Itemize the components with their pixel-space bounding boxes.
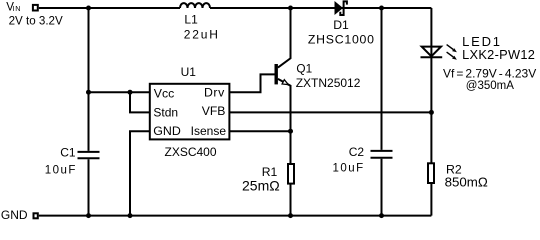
op-amp U1 body (ZXSC400 controller box) (150, 84, 230, 140)
transistor Q1 base bar (275, 64, 278, 84)
terminal GND (34, 213, 38, 218)
LED1 light arrow 2 head (452, 56, 457, 60)
wire: GND pin down to ground rail (130, 131, 149, 215)
node: R1 / ground junction (288, 213, 293, 218)
diode LED1 triangle (422, 47, 441, 57)
svg-text:Vcc: Vcc (154, 87, 175, 101)
wire: VIN terminal to L1 (top rail left) (39, 7, 180, 9)
capacitor C1 (78, 152, 100, 158)
svg-text:ZXTN25012: ZXTN25012 (296, 76, 361, 90)
inductor L1 (180, 3, 210, 8)
svg-text:10uF: 10uF (333, 163, 365, 175)
wire: ground rail (39, 215, 432, 217)
LED1 light arrow 1 head (452, 48, 457, 52)
node: D1 cathode / C2 junction (379, 6, 384, 11)
wire: VFB pin to LED cathode / R2 node (229, 111, 431, 113)
svg-text:22uH: 22uH (184, 28, 220, 42)
diode LED1 cathode bar (421, 56, 443, 58)
node: Isense / Q1 emitter junction (288, 129, 293, 134)
wire: VIN node down to C1 top plate (88, 8, 90, 151)
svg-text:Stdn: Stdn (153, 106, 178, 120)
svg-text:IN: IN (13, 4, 21, 13)
wire: LED / R2 branch vertical (430, 8, 432, 216)
wire: Isense pin to Q1 emitter node (229, 130, 290, 132)
svg-text:ZXSC400: ZXSC400 (165, 145, 217, 159)
diode D1 anode triangle (335, 1, 344, 15)
capacitor C2 (371, 151, 393, 158)
svg-text:ZHSC1000: ZHSC1000 (308, 32, 375, 46)
svg-text:C2: C2 (349, 145, 365, 159)
resistor R2 (428, 163, 434, 183)
wire: Vcc pin to VIN branch (89, 91, 150, 93)
node: L1 / D1 / Q1 collector junction (288, 6, 293, 11)
svg-text:LXK2-PW12: LXK2-PW12 (462, 47, 535, 62)
wire: C2 bottom plate to ground rail (381, 159, 383, 216)
transistor Q1 emitter down through R1 to ground (278, 79, 291, 216)
node: VIN / C1 junction (86, 6, 91, 11)
resistor R1 (288, 164, 294, 184)
svg-text:GND: GND (153, 124, 181, 138)
svg-text:Q1: Q1 (296, 61, 312, 75)
svg-text:@350mA: @350mA (466, 80, 514, 92)
terminal VIN (33, 5, 38, 11)
LED1 light arrow 1 shaft (447, 45, 454, 50)
svg-text:2V to 3.2V: 2V to 3.2V (9, 15, 63, 28)
svg-text:Drv: Drv (204, 86, 225, 100)
wire: C1 bottom plate to ground rail (88, 159, 90, 215)
svg-text:C1: C1 (60, 146, 76, 160)
transistor Q1 emitter arrowhead (282, 80, 288, 85)
svg-text:25mΩ: 25mΩ (242, 178, 280, 194)
wire: Drv pin to Q1 base (229, 74, 274, 92)
svg-text:Isense: Isense (191, 124, 227, 138)
node: Vcc/Stdn tie junction (128, 90, 133, 95)
svg-text:U1: U1 (181, 65, 197, 79)
wire: Stdn pin tie to Vcc node (130, 92, 150, 112)
wire: C2 branch top (D1 cathode node down) (381, 8, 383, 150)
svg-text:L1: L1 (184, 13, 198, 27)
svg-text:Vf = 2.79V - 4.23V: Vf = 2.79V - 4.23V (443, 67, 536, 81)
node: Vcc branch junction (86, 90, 91, 95)
svg-text:VFB: VFB (202, 104, 226, 118)
transistor Q1 collector (278, 8, 291, 68)
node: VFB / LED cathode / R2 junction (429, 110, 434, 115)
svg-text:GND: GND (1, 208, 28, 222)
node: U1 GND / ground junction (128, 213, 133, 218)
node: C1 / ground junction (86, 213, 91, 218)
LED1 light arrow 2 shaft (447, 52, 454, 57)
diode D1 cathode bar (schottky) (340, 1, 347, 15)
svg-text:D1: D1 (333, 18, 349, 32)
node: C2 / ground junction (379, 213, 384, 218)
svg-text:10uF: 10uF (45, 165, 77, 177)
svg-text:850mΩ: 850mΩ (445, 174, 488, 189)
wire: L1 to D1 to LED branch (top rail right) (210, 7, 431, 9)
